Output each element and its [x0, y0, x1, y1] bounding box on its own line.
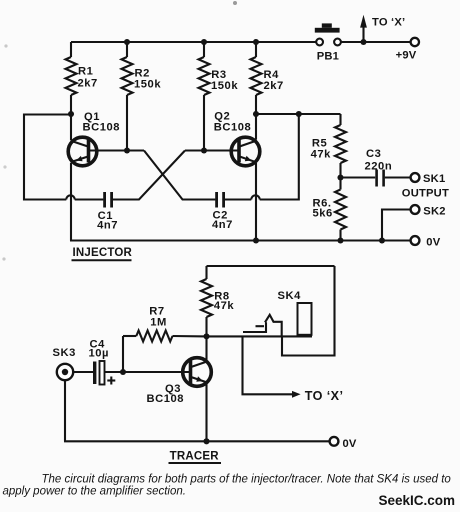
- svg-text:220n: 220n: [365, 160, 393, 172]
- wire Q3 collector: [205, 336, 207, 360]
- svg-text:4n7: 4n7: [97, 219, 118, 231]
- node top rail R2: [124, 39, 130, 45]
- wire Q2 collector lead: [255, 114, 257, 140]
- terminal +9V: [411, 38, 419, 46]
- wire top +9V rail: [71, 41, 316, 43]
- node R8 R7 Q3 collector: [203, 333, 209, 339]
- svg-text:+9V: +9V: [396, 50, 417, 62]
- node Q2 collector: [253, 111, 259, 117]
- node Q2 emitter on rail: [253, 237, 259, 243]
- node Q3 emitter on rail: [203, 438, 209, 444]
- svg-text:0V: 0V: [426, 237, 440, 249]
- wire PB1 to +9V terminal: [341, 41, 411, 43]
- svg-text:INJECTOR: INJECTOR: [73, 247, 133, 259]
- svg-text:C3: C3: [366, 148, 381, 160]
- scan speck top center: [233, 1, 237, 5]
- wire C2 right to hop: [225, 198, 252, 200]
- wire SK4 rail: [207, 335, 313, 337]
- node R3 to Q2 base: [201, 147, 207, 153]
- jack SK4 sleeve loop: [282, 266, 335, 356]
- svg-text:TO ‘X’: TO ‘X’: [372, 17, 405, 29]
- svg-text:SK2: SK2: [423, 205, 445, 217]
- wire TO 'X' drop: [243, 336, 293, 394]
- wire feedback loop right: [260, 114, 299, 200]
- wire tracer 0V rail: [64, 440, 329, 442]
- label INJECTOR heading: [72, 247, 133, 260]
- resistor R4: [251, 42, 262, 114]
- capacitor C1: [105, 192, 112, 208]
- wire Q2 base line: [185, 149, 239, 151]
- wire SK3 to C4: [73, 371, 93, 373]
- svg-text:R1: R1: [78, 66, 93, 78]
- scan speck left edge C: [2, 257, 5, 260]
- svg-text:The circuit diagrams for both: The circuit diagrams for both parts of t…: [42, 474, 452, 486]
- node R5 R6 C3: [337, 174, 343, 180]
- node feedback right: [296, 111, 302, 117]
- arrow TO 'X' bottom: [292, 391, 301, 398]
- node C4 R7 base: [120, 369, 126, 375]
- wire Q2 emitter to 0V rail: [255, 163, 257, 241]
- resistor R5: [335, 114, 346, 178]
- terminal SK1: [411, 173, 420, 182]
- wire C4 to Q3 base: [105, 371, 191, 373]
- wire SK2: [382, 210, 410, 241]
- svg-text:4n7: 4n7: [212, 219, 233, 231]
- node Q1 collector: [68, 111, 74, 117]
- label TRACER heading: [169, 450, 222, 463]
- svg-text:150k: 150k: [211, 80, 238, 92]
- wire Q1 collector: [70, 114, 72, 140]
- jack SK4 contact: [243, 315, 282, 337]
- node R6 on rail: [337, 237, 343, 243]
- wire feedback loop left: [24, 115, 71, 200]
- capacitor C4 electrolytic: [93, 361, 115, 385]
- node top rail TO 'X': [360, 39, 366, 45]
- wire to C1 left plate: [75, 198, 104, 200]
- svg-text:2k7: 2k7: [264, 80, 284, 92]
- capacitor C2: [217, 192, 224, 208]
- node R2 to Q1 base: [124, 147, 130, 153]
- wire Q3 emitter: [205, 383, 207, 441]
- svg-text:150k: 150k: [134, 79, 161, 91]
- node SK2 on rail: [379, 237, 385, 243]
- node top rail R3: [201, 39, 207, 45]
- svg-text:OUTPUT: OUTPUT: [402, 188, 449, 200]
- resistor R7: [123, 331, 207, 342]
- resistor R2: [122, 42, 133, 151]
- svg-text:BC108: BC108: [83, 122, 121, 134]
- svg-text:TRACER: TRACER: [170, 450, 220, 462]
- svg-text:10µ: 10µ: [89, 348, 110, 360]
- wire R7 drop to base node: [122, 336, 124, 372]
- terminal 0V injector: [411, 236, 420, 245]
- terminal SK3: [57, 364, 73, 380]
- svg-text:5k6: 5k6: [313, 207, 333, 219]
- resistor R3: [199, 42, 210, 151]
- svg-text:0V: 0V: [343, 438, 357, 450]
- svg-text:47k: 47k: [214, 300, 235, 312]
- svg-text:47k: 47k: [311, 148, 332, 160]
- transistor Q2: [231, 137, 260, 166]
- scan speck left edge A: [4, 44, 7, 47]
- svg-text:SeekIC.com: SeekIC.com: [379, 493, 456, 508]
- terminal 0V tracer: [330, 437, 339, 446]
- capacitor C3: [377, 170, 384, 187]
- transistor Q3: [183, 358, 212, 387]
- svg-text:SK4: SK4: [278, 290, 302, 302]
- wire R5 to C3: [341, 176, 376, 178]
- wire injector 0V rail: [70, 239, 410, 241]
- wire tracer top rail: [207, 265, 335, 267]
- wire C1 to Q2 base diagonal: [113, 151, 185, 200]
- pushbutton PB1: [315, 23, 341, 45]
- resistor R1: [66, 42, 77, 114]
- terminal SK2: [411, 205, 420, 214]
- wire SK3 ground drop: [64, 380, 66, 441]
- svg-text:SK3: SK3: [53, 347, 76, 359]
- wire hop over Q2 emitter: [251, 195, 259, 199]
- wire Q2 collector node to R5: [256, 113, 341, 115]
- wire Q1 base line: [89, 149, 145, 151]
- wire Q1 base to C2 diagonal: [144, 151, 215, 200]
- svg-text:BC108: BC108: [147, 393, 185, 405]
- arrow TO 'X' top: [360, 15, 367, 42]
- svg-text:BC108: BC108: [214, 122, 252, 134]
- svg-text:SK1: SK1: [423, 173, 445, 185]
- wire hop over Q1 emitter: [66, 195, 74, 199]
- resistor R8: [201, 266, 212, 336]
- wire C3 to SK1: [385, 176, 411, 178]
- scan speck left edge B: [3, 165, 6, 168]
- svg-text:1M: 1M: [150, 316, 167, 328]
- svg-text:2k7: 2k7: [78, 78, 98, 90]
- transistor Q1: [68, 137, 97, 166]
- svg-text:TO ‘X’: TO ‘X’: [305, 389, 344, 403]
- svg-text:apply power to the amplifier s: apply power to the amplifier section.: [3, 486, 186, 498]
- jack SK4 body: [298, 303, 312, 335]
- node top rail R4: [253, 39, 259, 45]
- svg-text:PB1: PB1: [317, 51, 339, 63]
- resistor R6: [335, 178, 346, 241]
- wire Q1 emitter to 0V rail: [70, 163, 72, 241]
